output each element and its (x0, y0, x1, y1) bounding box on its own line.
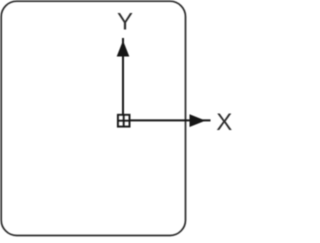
origin marker vertical divider (123, 115, 125, 127)
origin marker square (118, 115, 130, 127)
svg-text:X: X (216, 109, 232, 136)
X axis arrowhead (190, 114, 206, 127)
X axis shaft (wire) (129, 119, 211, 121)
Y axis shaft (wire) (122, 38, 124, 115)
part outline (rounded rectangle) (1, 1, 185, 235)
origin marker horizontal divider (118, 120, 130, 122)
svg-text:Y: Y (117, 9, 133, 36)
Y axis arrowhead (117, 41, 130, 57)
